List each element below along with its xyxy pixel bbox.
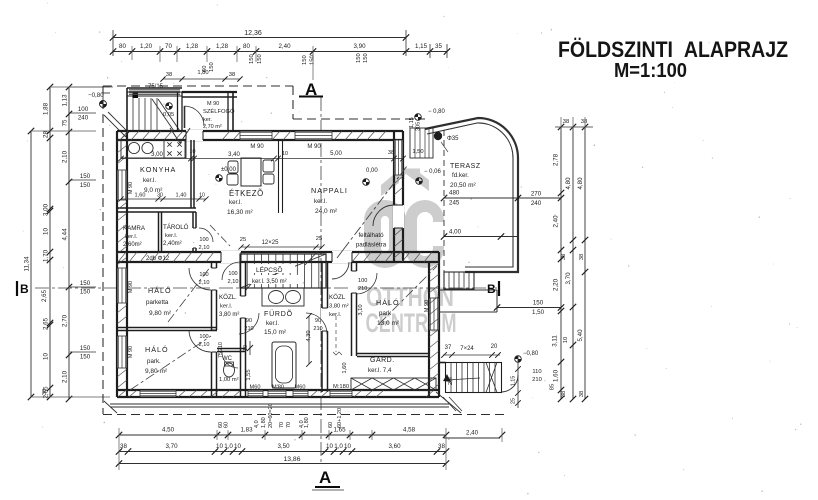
room label LEPCSO: [253, 264, 295, 273]
window mark 150/150 halo2: [70, 351, 96, 353]
svg-text:10: 10: [326, 443, 333, 450]
svg-text:38: 38: [563, 119, 569, 125]
wall furdo west: [240, 262, 242, 397]
svg-text:110: 110: [532, 369, 541, 375]
dim 4,30 line furdo east: [308, 316, 310, 364]
svg-text:240: 240: [78, 115, 89, 122]
svg-text:TERASZ: TERASZ: [450, 163, 481, 170]
svg-text:5,40: 5,40: [577, 329, 584, 342]
dim overall 13,86 bottom: [119, 463, 446, 465]
terrace inner edge: [427, 123, 513, 267]
svg-text:10: 10: [563, 337, 569, 343]
watermark letter O: [364, 200, 406, 268]
wall nappali east inner face: [402, 131, 404, 262]
svg-text:10: 10: [43, 228, 50, 235]
svg-text:GARD.: GARD.: [370, 357, 395, 364]
svg-text:ker.l.: ker.l.: [165, 233, 178, 239]
svg-text:25: 25: [240, 237, 246, 243]
kitchen counter: [121, 140, 186, 158]
entry arrow: [170, 128, 180, 143]
door arc kozl1-furdo: [239, 313, 259, 334]
svg-text:1,13: 1,13: [62, 94, 69, 107]
svg-text:7×24: 7×24: [460, 346, 474, 352]
svg-text:38: 38: [42, 389, 48, 395]
wall exterior top outer face: [117, 130, 403, 132]
svg-text:ker.l.: ker.l.: [220, 304, 233, 310]
svg-text:3,50: 3,50: [277, 443, 290, 450]
svg-text:38: 38: [438, 443, 445, 450]
wall middle band lower face: [117, 261, 439, 263]
svg-text:1,20: 1,20: [140, 43, 153, 50]
svg-text:park.: park.: [147, 358, 161, 365]
svg-text:−0,80: −0,80: [88, 92, 104, 99]
door opening szelfogo-etkezo: [186, 130, 203, 141]
svg-text:150: 150: [310, 55, 316, 65]
furdo sink counter: [262, 288, 304, 306]
rear platform edge: [439, 289, 497, 291]
svg-text:16,30 m²: 16,30 m²: [227, 209, 253, 216]
terrace outer edge: [425, 118, 518, 272]
svg-text:1,40: 1,40: [176, 193, 187, 199]
staircase LEPCSO: [240, 254, 326, 288]
svg-text:1,00 m²: 1,00 m²: [219, 377, 239, 383]
window bottom furdo M80: [268, 391, 286, 397]
roof overhang dashed connector: [292, 86, 294, 119]
door arc kozl1-halo2: [189, 330, 211, 352]
svg-text:− 0,80: − 0,80: [428, 109, 446, 115]
svg-text:20: 20: [491, 344, 498, 350]
svg-text:1,55: 1,55: [246, 369, 252, 380]
svg-text:100: 100: [199, 237, 208, 243]
svg-text:M 90: M 90: [307, 144, 321, 150]
svg-text:150: 150: [533, 300, 544, 307]
door arc nappali-kozl2: [332, 262, 349, 279]
wall szelfogo top: [182, 91, 237, 93]
door arc kozl2-halo3: [356, 273, 377, 294]
dining chairs right: [263, 160, 274, 172]
dim line left middle: [49, 87, 51, 397]
dim overall 12,36 top: [113, 37, 406, 39]
svg-text:12,36: 12,36: [244, 30, 262, 37]
svg-text:38: 38: [579, 254, 585, 260]
svg-text:245: 245: [449, 200, 460, 207]
svg-text:24,0 m²: 24,0 m²: [315, 208, 338, 215]
svg-text:M 90: M 90: [128, 281, 134, 293]
svg-text:9,80 m²: 9,80 m²: [149, 310, 172, 317]
svg-text:3,80 m²: 3,80 m²: [329, 304, 349, 310]
garage stair walls: [439, 362, 446, 364]
svg-text:38: 38: [561, 254, 567, 260]
door opening kozl1-furdo: [240, 296, 247, 318]
door opening nappali-kozl2: [332, 251, 352, 263]
svg-text:2,70: 2,70: [62, 314, 69, 327]
terrace steps to garden south: [444, 272, 474, 289]
wall halo3 south: [357, 353, 429, 355]
dim line right col A: [560, 127, 562, 399]
svg-text:30: 30: [157, 193, 163, 199]
wall nappali east outer face: [393, 131, 395, 262]
right dims top connector: [555, 126, 593, 128]
svg-text:2,40: 2,40: [553, 215, 560, 228]
dim chain konyha inner: [121, 198, 206, 200]
wall furdo east: [321, 262, 323, 392]
svg-text:150: 150: [249, 54, 255, 64]
roof overhang dashed top left: [103, 85, 293, 87]
svg-text:M=1:100: M=1:100: [614, 60, 687, 82]
terrace steps northwest: [410, 128, 433, 158]
svg-text:0,00: 0,00: [366, 168, 378, 174]
door arc kozl2-furdo: [306, 313, 327, 334]
roof overhang dashed top right: [293, 118, 425, 120]
watermark OC logo roof: [381, 167, 429, 197]
svg-text:2,40m²: 2,40m²: [163, 241, 182, 247]
svg-text:10: 10: [43, 353, 50, 360]
wall hatch texture: [117, 131, 439, 397]
svg-text:480: 480: [449, 190, 460, 197]
door arc kozl1-halo1: [189, 268, 211, 290]
svg-text:28: 28: [43, 131, 50, 138]
svg-text:60: 60: [328, 422, 334, 428]
wall halo3 east outer face: [438, 252, 440, 397]
diagonal dash-dot halo2: [130, 336, 211, 390]
dim line left outer 11,34: [30, 131, 32, 397]
svg-text:4,58: 4,58: [403, 427, 416, 434]
svg-text:4,50: 4,50: [162, 427, 175, 434]
svg-text:3,10: 3,10: [358, 304, 364, 315]
svg-text:ker.l.: ker.l.: [229, 199, 242, 206]
svg-text:KONYHA: KONYHA: [140, 165, 176, 174]
svg-text:LÉPCSÕ: LÉPCSÕ: [256, 265, 282, 274]
svg-text:150: 150: [80, 354, 91, 361]
svg-text:parketta: parketta: [146, 299, 169, 306]
window top nappali M90: [295, 132, 332, 140]
window bottom halo2: [140, 391, 176, 397]
svg-text:90: 90: [315, 318, 321, 324]
svg-text:270: 270: [531, 191, 542, 198]
svg-text:3,00: 3,00: [43, 203, 50, 216]
svg-text:38: 38: [166, 72, 172, 78]
svg-text:150: 150: [80, 289, 91, 296]
svg-text:4,80: 4,80: [565, 177, 572, 190]
svg-text:25: 25: [316, 236, 322, 242]
svg-text:3,60: 3,60: [388, 443, 401, 450]
roof hip diagonal bottom-left: [104, 401, 117, 413]
door opening kozl1-halo2: [211, 330, 218, 352]
svg-text:−0,80: −0,80: [523, 351, 539, 357]
svg-text:ker.l.: ker.l.: [143, 177, 156, 184]
svg-text:2,10: 2,10: [199, 280, 210, 286]
wardrobe strip with X pattern: [351, 378, 436, 390]
window east halo3 M90: [430, 298, 439, 330]
svg-text:4,00: 4,00: [449, 229, 462, 236]
window left halo2 M90: [118, 336, 127, 368]
door arc etkezo-kozl1 swing: [222, 262, 240, 280]
svg-text:60+1,20: 60+1,20: [337, 408, 343, 428]
wall szelfogo west: [177, 92, 179, 131]
svg-text:KAMRA: KAMRA: [123, 225, 146, 232]
svg-text:HÁLÓ: HÁLÓ: [376, 298, 400, 307]
dim 1,15 and 35 top right: [427, 48, 433, 54]
svg-text:1,83: 1,83: [240, 427, 253, 434]
svg-text:3,11: 3,11: [552, 335, 559, 347]
svg-text:ker.l.: ker.l.: [329, 312, 342, 318]
svg-text:37: 37: [445, 345, 452, 351]
roof hip diagonal bottom-right: [436, 392, 461, 413]
door arc wc: [222, 352, 238, 368]
svg-text:38: 38: [120, 443, 127, 450]
wall halo3 east inner face: [428, 262, 430, 397]
wall exterior bottom inner face: [117, 389, 439, 391]
svg-text:M 90: M 90: [128, 182, 134, 194]
svg-text:210: 210: [313, 326, 322, 332]
svg-text:1,15: 1,15: [409, 117, 415, 128]
svg-text:ÉTKEZÕ: ÉTKEZÕ: [229, 189, 264, 198]
svg-text:210: 210: [358, 286, 367, 292]
svg-text:SZÉLFOGÓ: SZÉLFOGÓ: [203, 108, 235, 115]
garage stair arrow: [447, 378, 480, 380]
dim 270/240 terrace right: [518, 197, 561, 199]
svg-text:1,60: 1,60: [553, 369, 560, 382]
svg-text:3,90: 3,90: [353, 43, 366, 50]
svg-text:80: 80: [119, 43, 126, 50]
svg-text:M 90: M 90: [424, 300, 430, 312]
svg-text:2,40: 2,40: [278, 43, 291, 50]
svg-text:1,70: 1,70: [43, 249, 50, 262]
terrace door window in nappali east wall: [395, 140, 403, 175]
kozl2 dashed break line: [335, 316, 337, 352]
svg-text:210: 210: [532, 377, 542, 383]
svg-text:ker.l.: ker.l.: [266, 320, 279, 327]
wall bedrooms east (hall west): [211, 262, 213, 397]
svg-text:M 90: M 90: [128, 346, 134, 358]
section line B-B horizontal dash-dot: [35, 287, 497, 289]
svg-text:150: 150: [356, 53, 362, 63]
wall exterior left outer face: [116, 131, 118, 397]
door opening kozl1-halo1: [211, 268, 218, 290]
svg-text:TÁROLÓ: TÁROLÓ: [163, 224, 189, 231]
svg-text:75: 75: [62, 119, 69, 126]
svg-text:5,00: 5,00: [330, 151, 342, 157]
svg-text:2,40: 2,40: [466, 430, 479, 437]
svg-text:13,0 m²: 13,0 m²: [377, 320, 400, 327]
svg-text:M′80: M′80: [272, 385, 284, 391]
dining chairs left: [228, 161, 238, 173]
porch corner column: [133, 93, 139, 99]
window left halo1 M90: [118, 268, 127, 303]
svg-text:10: 10: [234, 443, 241, 450]
wall konyha east: [190, 140, 192, 208]
svg-text:150: 150: [80, 345, 91, 352]
svg-text:3,40: 3,40: [228, 152, 240, 158]
svg-text:75/15: 75/15: [148, 84, 164, 90]
dim 4,00 terrace: [444, 236, 518, 238]
wall middle band upper face: [117, 251, 439, 253]
svg-text:70: 70: [165, 43, 172, 50]
svg-text:1,15: 1,15: [415, 43, 428, 50]
svg-text:1,28: 1,28: [216, 43, 229, 50]
terrace column phi35: [434, 132, 442, 140]
svg-text:15,0 m²: 15,0 m²: [264, 329, 287, 336]
svg-text:12×25: 12×25: [262, 240, 280, 246]
dim chain top second row: [113, 51, 406, 53]
dim stairs 25 12x25 25: [241, 246, 322, 248]
svg-text:FÖLDSZINTI ALAPRAJZ: FÖLDSZINTI ALAPRAJZ: [558, 37, 788, 62]
dim 480/245 terrace: [444, 197, 518, 199]
svg-text:150: 150: [209, 62, 215, 72]
svg-text:10: 10: [199, 193, 205, 199]
svg-text:150: 150: [80, 280, 91, 287]
svg-text:35: 35: [435, 43, 442, 50]
roof overhang dashed left: [102, 86, 104, 414]
wall exterior top inner face: [117, 139, 403, 141]
dim chain above szelfogo 38 180 38: [163, 78, 240, 80]
wall exterior left inner face: [126, 131, 128, 397]
svg-text:2,10: 2,10: [199, 245, 210, 251]
svg-text:1,0: 1,0: [224, 443, 233, 450]
svg-text:38: 38: [581, 119, 587, 125]
svg-text:38: 38: [388, 150, 394, 156]
wall tarolo east: [192, 212, 194, 252]
hatch marks bottom right corner: [443, 397, 456, 411]
staircase diagonal: [240, 254, 326, 288]
svg-text:150: 150: [363, 53, 369, 63]
door opening etkezo-kozl1: [221, 251, 241, 263]
dim line left innermost: [68, 87, 70, 399]
svg-text:70: 70: [279, 422, 285, 428]
svg-text:4,80: 4,80: [577, 177, 584, 190]
svg-text:210: 210: [244, 326, 253, 332]
svg-text:M 90: M 90: [207, 101, 219, 107]
svg-text:10: 10: [190, 149, 196, 155]
svg-text:38: 38: [579, 391, 585, 397]
svg-text:4,0: 4,0: [254, 420, 260, 428]
svg-text:fd.ker.: fd.ker.: [452, 172, 469, 179]
svg-text:2,10: 2,10: [62, 370, 69, 383]
window mark 150/150 konyha: [70, 179, 96, 181]
svg-text:2,70 m²: 2,70 m²: [203, 124, 222, 130]
watermark letter C: [405, 200, 444, 268]
section line A-A vertical dash-dot: [320, 97, 322, 464]
window mark 100/240 left top: [70, 112, 96, 114]
svg-text:2,10: 2,10: [228, 279, 239, 285]
svg-text:4,44: 4,44: [62, 228, 69, 241]
svg-text:1,50: 1,50: [412, 149, 423, 155]
dim extension verticals top: [131, 46, 133, 60]
wall szelfogo east: [227, 92, 229, 131]
bathtub: [272, 342, 296, 388]
diagonal dash-dot halo3: [379, 266, 437, 324]
plinth line below south wall: [110, 403, 449, 405]
entry porch diagonal: [152, 99, 174, 131]
dim 10 tick furdo: [249, 341, 251, 355]
svg-text:B: B: [20, 282, 29, 296]
svg-text:150: 150: [80, 173, 91, 180]
kitchen stove: [164, 140, 185, 158]
window mark 150/150 halo1: [70, 286, 96, 288]
garage stairs treads: [446, 363, 502, 393]
svg-text:9,80 m²: 9,80 m²: [145, 368, 168, 375]
svg-text:FÜRDÕ: FÜRDÕ: [264, 309, 293, 318]
svg-text:80: 80: [243, 43, 250, 50]
svg-text:10: 10: [216, 443, 223, 450]
svg-text:60: 60: [224, 422, 230, 428]
roof overhang dashed bottom: [103, 414, 508, 416]
door opening kozl2-furdo: [321, 308, 329, 331]
roof hip diagonal top-left: [104, 115, 126, 137]
door arc szelfogo entry: [184, 106, 186, 128]
dim chain 37 7x24 20 garage: [443, 354, 500, 356]
dim chain top interior: [121, 158, 403, 160]
svg-text:2,65: 2,65: [41, 289, 48, 302]
svg-text:150: 150: [257, 54, 263, 64]
wc toilet: [224, 363, 235, 377]
svg-text:305: 305: [416, 122, 422, 131]
svg-text:38: 38: [229, 72, 235, 78]
kitchen sink bowls: [128, 142, 139, 153]
svg-text:KÖZL.: KÖZL.: [219, 294, 237, 301]
svg-text:150: 150: [302, 55, 308, 65]
svg-text:240: 240: [531, 200, 542, 207]
svg-text:11,34: 11,34: [24, 256, 31, 272]
svg-text:100: 100: [358, 278, 367, 284]
svg-text:padláslétra: padláslétra: [356, 242, 387, 249]
dim line right col B: [572, 127, 574, 399]
svg-text:2,65: 2,65: [43, 317, 50, 330]
svg-text:1,80: 1,80: [304, 417, 310, 428]
svg-text:A: A: [319, 468, 331, 487]
svg-text:±0,00: ±0,00: [221, 167, 237, 173]
svg-text:1,0: 1,0: [334, 443, 343, 450]
dining table: [241, 158, 261, 186]
svg-text:1,15: 1,15: [511, 376, 517, 387]
svg-text:M:180: M:180: [333, 384, 349, 390]
svg-text:HÁLÓ: HÁLÓ: [145, 345, 169, 354]
svg-text:ker.l. 3,50 m²: ker.l. 3,50 m²: [252, 279, 287, 285]
bottom extension verticals: [118, 428, 120, 470]
wall wc north: [217, 348, 246, 350]
diagonal dash-dot halo1: [168, 266, 211, 322]
svg-text:Φ35: Φ35: [447, 136, 459, 142]
svg-text:B: B: [487, 282, 496, 296]
svg-text:25: 25: [511, 398, 517, 404]
wall etkezo-nappali divider: [278, 140, 280, 213]
svg-text:3,80 m²: 3,80 m²: [219, 312, 239, 318]
svg-text:1,50: 1,50: [532, 309, 545, 316]
svg-text:100: 100: [199, 334, 208, 340]
porch hatch strip: [129, 89, 180, 91]
dim line right col C: [584, 127, 586, 399]
svg-text:100: 100: [78, 106, 89, 113]
svg-text:1,28: 1,28: [186, 43, 199, 50]
svg-text:2,10: 2,10: [62, 150, 69, 163]
door opening kozl2-halo3: [351, 271, 358, 293]
svg-text:1,80: 1,80: [261, 417, 267, 428]
svg-text:M 90: M 90: [250, 144, 264, 150]
window left konyha M90: [118, 170, 127, 200]
wall bedroom divider: [117, 327, 217, 329]
svg-text:M60: M60: [295, 385, 306, 391]
svg-text:− 0,06: − 0,06: [424, 169, 442, 175]
door opening nappali-terrace: [393, 205, 404, 228]
door arc nappali-terrace: [373, 205, 394, 226]
svg-text:70: 70: [286, 422, 292, 428]
wall exterior bottom outer face: [117, 396, 439, 398]
svg-text:KÖZL: KÖZL: [329, 294, 346, 301]
svg-text:3,70: 3,70: [165, 443, 178, 450]
svg-text:feltálható: feltálható: [358, 232, 384, 239]
svg-text:38: 38: [561, 391, 567, 397]
door arc garage entry: [502, 375, 519, 392]
